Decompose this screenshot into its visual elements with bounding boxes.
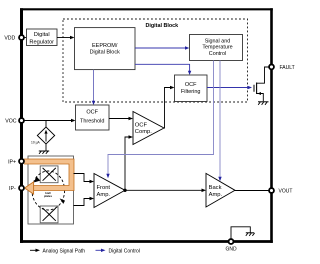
wire OCF Threshold to OCF Comp with arrow <box>109 117 133 121</box>
svg-text:Digital Control: Digital Control <box>109 248 140 254</box>
svg-text:Digital Block: Digital Block <box>90 49 121 55</box>
pin VOC <box>19 118 24 123</box>
svg-text:Regulator: Regulator <box>29 39 54 45</box>
svg-text:Amp.: Amp. <box>209 192 223 198</box>
svg-text:OCF: OCF <box>185 82 197 88</box>
svg-text:Threshold: Threshold <box>80 119 104 125</box>
svg-text:Filtering: Filtering <box>181 89 201 95</box>
chassis ground near GND <box>246 233 255 236</box>
legend arrow Analog Signal Path <box>30 248 85 254</box>
flux ellipse arrowhead lower-right <box>60 198 65 204</box>
wire Front Amp to Back Amp <box>125 189 206 193</box>
chassis ground below current source <box>39 151 49 154</box>
amplifier Back Amp <box>206 173 235 207</box>
legend arrow Digital Control <box>96 248 140 254</box>
current source I1 10 uA diamond <box>37 127 54 144</box>
blue wire EEPROM to OCF Filtering (down leg) <box>135 64 191 75</box>
svg-text:IP-: IP- <box>9 186 16 192</box>
wire Front Amp output up to OCF Comp input <box>125 135 133 190</box>
amplifier Front Amp <box>94 174 125 208</box>
wire OCF Comp output to OCF Filtering <box>164 86 175 128</box>
svg-text:plates: plates <box>44 194 53 198</box>
Hall plates label <box>44 191 53 198</box>
svg-text:VOUT: VOUT <box>279 189 293 195</box>
svg-text:OCF: OCF <box>86 110 98 116</box>
svg-text:Back: Back <box>209 185 222 191</box>
flux ellipse arrowhead upper-left <box>34 176 40 182</box>
wire VOC to OCF Threshold with arrow <box>24 119 76 123</box>
junction node at Front Amp output <box>123 189 126 192</box>
svg-text:VOC: VOC <box>5 119 16 125</box>
wire VDD to Digital Regulator <box>24 37 27 39</box>
svg-text:VDD: VDD <box>4 36 15 42</box>
hall plate container box <box>28 156 74 224</box>
dashed flux ellipse with rotation arrows <box>32 171 65 210</box>
svg-text:Digital: Digital <box>34 32 50 38</box>
pin IP- <box>19 186 24 191</box>
hall plate H2 (bottom) <box>40 206 58 223</box>
svg-text:IP+: IP+ <box>8 159 16 165</box>
pin VOUT <box>269 188 274 193</box>
blue bus line 2 from Signal and Temperature Control to Back Amp <box>218 61 221 182</box>
wire Digital Regulator to EEPROM with arrow <box>57 36 75 40</box>
pin FAULT <box>269 64 274 69</box>
blue wire OCF Filtering output to FAULT transistor gate <box>207 86 252 90</box>
wire current source to ground <box>45 144 47 152</box>
wire hall container to Front Amp input 1 <box>74 174 95 184</box>
regulator block U-REG Digital Regulator <box>27 29 58 46</box>
svg-text:OCF: OCF <box>135 122 148 128</box>
wire GND pin to chassis ground <box>231 227 250 240</box>
svg-text:Comp.: Comp. <box>135 129 152 135</box>
svg-text:Temperature: Temperature <box>202 45 232 51</box>
hall plate H1 (top) <box>40 166 58 183</box>
wire Back Amp to VOUT <box>235 190 269 192</box>
wire hall container to Front Amp input 2 <box>74 197 95 206</box>
OCF Threshold box <box>76 105 110 130</box>
Digital Block dashed container <box>63 19 248 102</box>
pin IP+ <box>19 159 24 164</box>
OCF Filtering box <box>175 75 208 102</box>
EEPROM / Digital Block box <box>75 28 136 70</box>
pin VDD <box>19 35 24 40</box>
wire stub to current source <box>45 121 47 128</box>
svg-text:GND: GND <box>225 247 237 253</box>
svg-text:Signal and: Signal and <box>205 38 230 44</box>
transistor Q1 FAULT open-drain NMOS <box>254 67 269 101</box>
svg-text:Amp.: Amp. <box>97 192 111 198</box>
svg-text:10 µA: 10 µA <box>31 141 40 145</box>
blue bus line 1 from Signal and Temperature Control to Front Amp <box>106 61 213 179</box>
svg-text:Digital Block: Digital Block <box>145 23 178 29</box>
svg-text:FAULT: FAULT <box>280 65 295 71</box>
svg-text:Control: Control <box>209 51 226 57</box>
blue wire EEPROM to Signal and Temperature Control <box>135 46 189 49</box>
IC package boundary frame <box>20 8 273 243</box>
ground for FAULT transistor <box>258 102 269 105</box>
comparator OCF Comp. <box>133 112 164 145</box>
orange current path IP+ to IP- <box>24 162 72 195</box>
Signal and Temperature Control box <box>190 35 243 61</box>
blue wire EEPROM bottom to OCF Threshold <box>92 70 95 105</box>
svg-text:EEPROM/: EEPROM/ <box>92 43 118 49</box>
svg-text:Front: Front <box>97 185 111 191</box>
pin GND <box>229 239 234 244</box>
svg-text:Analog Signal Path: Analog Signal Path <box>43 248 86 254</box>
